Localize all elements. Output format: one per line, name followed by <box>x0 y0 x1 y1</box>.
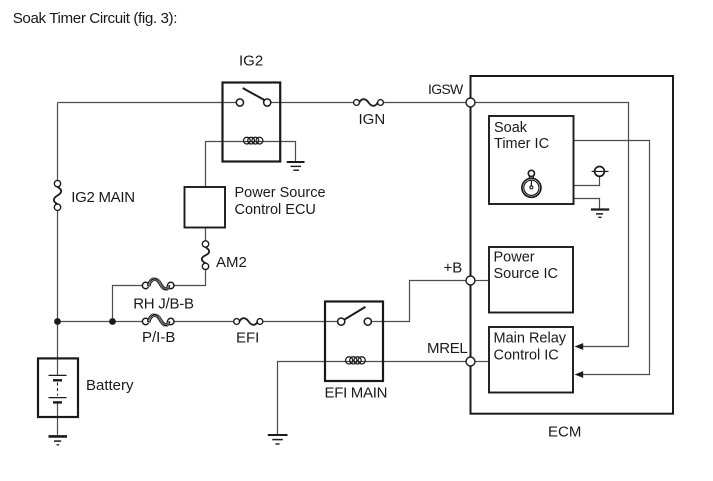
IG2 switch blade <box>243 88 265 100</box>
wire: bottom bus y=322 segment 2 <box>173 321 234 323</box>
EFI fuse <box>234 318 263 325</box>
EFI MAIN switch blade <box>344 307 365 320</box>
wire: EFI MAIN switch output up to +B <box>371 281 466 322</box>
battery ground <box>49 436 68 444</box>
EFI MAIN relay box <box>325 302 383 382</box>
wire: bottom bus y=322 segment 1 <box>58 321 144 323</box>
RH J/B-B fusible link <box>142 278 174 291</box>
svg-text:Control IC: Control IC <box>494 348 559 364</box>
IG2 relay coil <box>244 137 263 144</box>
battery plate short thick bottom <box>53 401 62 403</box>
svg-text:P/I-B: P/I-B <box>142 329 175 346</box>
MREL connector circle <box>466 357 475 366</box>
battery top lead inside box <box>57 358 59 375</box>
Power Source Control ECU box <box>185 187 226 228</box>
Battery box <box>38 358 78 417</box>
svg-text:IGN: IGN <box>359 111 386 128</box>
svg-text:Power Source: Power Source <box>235 185 326 201</box>
wire: EFI MAIN coil wire with left stub to ground and MREL run <box>278 362 467 435</box>
svg-text:EFI: EFI <box>236 330 259 347</box>
IGN fuse <box>354 99 384 106</box>
AM2 fuse <box>202 241 209 270</box>
IG2 MAIN fuse <box>54 180 61 210</box>
svg-text:+B: +B <box>444 260 463 277</box>
wire: left vertical x=57 upper <box>57 103 59 182</box>
wire: IG2 switch output to IGN fuse <box>271 102 354 104</box>
battery plate short thick <box>53 379 62 381</box>
wire: +B into Power Source IC <box>475 280 490 282</box>
IG2 relay box <box>223 83 281 162</box>
IG2 switch contact left <box>236 99 243 106</box>
svg-text:Source IC: Source IC <box>494 266 558 282</box>
wire: IG2 coil wire, left stub down to Power Source Control ECU, right stub to ground <box>206 142 296 188</box>
EFI MAIN switch contact right <box>364 318 371 325</box>
svg-text:RH J/B-B: RH J/B-B <box>133 296 194 313</box>
svg-text:IGSW: IGSW <box>428 81 464 97</box>
battery bottom lead to ground <box>57 402 59 435</box>
check terminal circle <box>595 167 605 177</box>
wire: AM2 fuse to RH J/B-B corner <box>173 270 205 286</box>
svg-text:Timer IC: Timer IC <box>494 136 549 152</box>
svg-text:Soak Timer Circuit (fig. 3):: Soak Timer Circuit (fig. 3): <box>13 10 177 27</box>
IG2 ground <box>287 162 305 170</box>
check terminal tick <box>592 170 609 172</box>
soak timer ground <box>591 210 609 218</box>
svg-text:MREL: MREL <box>427 340 467 357</box>
arrowhead into Main Relay Control IC (from Soak Timer IC) <box>575 371 584 378</box>
wire: left vertical x=57 lower to battery <box>57 211 59 359</box>
battery dashed center link <box>57 383 59 396</box>
IGSW connector circle <box>466 98 475 107</box>
wire: Soak Timer IC output run to Main Relay Control IC arrow <box>574 141 650 375</box>
battery plate long top <box>49 374 67 376</box>
EFI MAIN ground <box>268 435 288 444</box>
svg-text:Battery: Battery <box>86 377 134 394</box>
P/I-B fusible link <box>142 314 174 327</box>
wire: EFI fuse to EFI MAIN relay <box>263 321 338 323</box>
svg-text:AM2: AM2 <box>216 254 247 271</box>
junction dot at x=57 bus <box>54 318 61 325</box>
arrowhead into Main Relay Control IC (from IGSW) <box>575 343 584 350</box>
svg-text:Soak: Soak <box>494 120 528 136</box>
wire: RH J/B-B left to junction <box>113 286 144 322</box>
wire: PSC ECU to AM2 fuse <box>205 228 207 241</box>
ECM box <box>471 76 674 414</box>
+B connector circle <box>466 276 475 285</box>
wire: Soak Timer IC pin to ground <box>574 199 600 209</box>
EFI MAIN switch contact left <box>338 318 345 325</box>
Main Relay Control IC box <box>489 327 573 393</box>
svg-text:IG2: IG2 <box>239 53 263 70</box>
wire: IGN fuse to IGSW connector <box>383 102 466 104</box>
svg-text:EFI MAIN: EFI MAIN <box>325 385 388 402</box>
battery plate long bottom <box>49 397 67 399</box>
IG2 switch contact right <box>264 99 271 106</box>
wire: Soak Timer IC pin to check terminal <box>574 176 600 185</box>
wire: MREL into Main Relay Control IC <box>475 361 490 363</box>
Soak Timer IC box <box>489 116 574 204</box>
svg-text:IG2 MAIN: IG2 MAIN <box>71 189 134 206</box>
svg-text:Control ECU: Control ECU <box>235 202 316 218</box>
timer icon <box>522 170 541 197</box>
Power Source IC box <box>489 247 573 313</box>
wire: top bus y=102 left segment <box>58 102 237 104</box>
svg-text:Main Relay: Main Relay <box>494 330 567 346</box>
wire: IGSW internal run to Main Relay Control IC arrow <box>475 103 629 347</box>
junction dot at x=112.6 bus <box>109 318 116 325</box>
svg-text:ECM: ECM <box>548 424 581 441</box>
EFI MAIN relay coil <box>346 357 366 364</box>
svg-text:Power: Power <box>494 250 535 266</box>
